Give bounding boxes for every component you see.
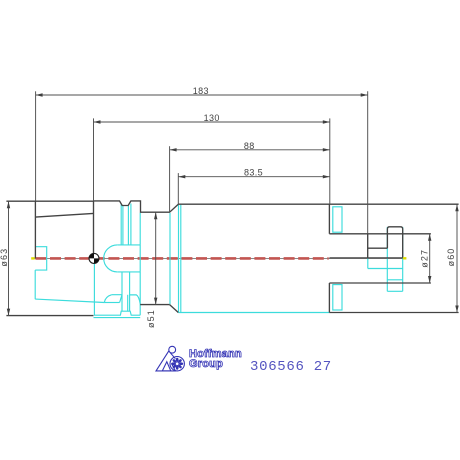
ext line 130 left / flange face bbox=[93, 118, 95, 201]
cyan hidden: capsule left cap bbox=[104, 245, 118, 272]
cyan hidden: flange face below center bbox=[93, 264, 95, 315]
logo wordmark Hoffmann bbox=[189, 350, 249, 370]
balance ball symbol bbox=[89, 253, 99, 263]
body right face lower bbox=[328, 283, 330, 313]
cyan hidden: head bottom bbox=[387, 290, 402, 292]
arrows dia51 bbox=[154, 212, 157, 219]
dim dia60 line bbox=[456, 204, 458, 312]
arrows 130 bbox=[94, 120, 101, 123]
dia60 bottom ext bbox=[329, 312, 458, 314]
body bottom-left chamfer bbox=[170, 305, 179, 313]
centerline red dashes bbox=[35, 257, 328, 260]
cyan hidden: body bottom edge bbox=[178, 312, 329, 314]
arrows 83.5 bbox=[178, 175, 185, 178]
centerline thin bbox=[32, 257, 404, 259]
ext line right 183 bbox=[367, 91, 369, 234]
logo triangle body bbox=[156, 351, 176, 371]
arrows dia60 bbox=[455, 204, 458, 211]
cyan hidden: head right vertical bbox=[402, 227, 404, 291]
cyan hidden: flange right face below center bbox=[139, 272, 141, 315]
cyan hidden: capsule top bbox=[117, 244, 140, 246]
logo head circle bbox=[169, 346, 176, 353]
flange top with V-groove bbox=[94, 201, 179, 212]
cyan hidden: left face lower bbox=[34, 270, 36, 299]
cyan hidden: wing left bottom bbox=[104, 302, 119, 304]
dim 130 line bbox=[94, 121, 330, 123]
logo inner triangle bbox=[162, 362, 171, 371]
arrows dia27 bbox=[428, 234, 431, 241]
cyan hidden: wing left top bbox=[112, 294, 122, 296]
cyan hidden: groove wall vertical 4 bbox=[130, 204, 132, 245]
shank top edge + dim ext bbox=[6, 200, 93, 202]
cyan hidden: flange face upper hidden vertical bbox=[139, 213, 141, 245]
cyan hidden: end face below center bbox=[367, 258, 369, 268]
end face at 183 bbox=[367, 234, 369, 258]
centerline yellow tick left bbox=[31, 257, 35, 259]
ext line 83.5 left bbox=[177, 173, 179, 204]
arrows 88 bbox=[170, 148, 177, 151]
logo leg to gear bbox=[170, 352, 176, 358]
cyan hidden: capsule bottom bbox=[117, 271, 140, 273]
ext line right 130/88/83.5 bbox=[329, 118, 331, 204]
part number 306566 27 bbox=[250, 359, 332, 375]
cyan hidden: body-left chamfer vertical 1 bbox=[169, 213, 171, 304]
arrows 183 bbox=[36, 93, 43, 96]
flange left face bbox=[93, 201, 95, 253]
cyan hidden: cup left wall bbox=[121, 272, 123, 311]
logo gear outer circle bbox=[170, 357, 184, 371]
shank bottom edge + dim ext bbox=[6, 315, 93, 317]
cyan hidden: head mid line bbox=[387, 279, 402, 281]
profile black bbox=[6, 201, 458, 316]
cyan hidden: groove wall vertical 3 bbox=[127, 206, 129, 245]
arrows dia63 bbox=[7, 201, 10, 208]
cyan hidden: wing right arc bbox=[130, 295, 141, 304]
dim 83.5 line bbox=[178, 176, 329, 178]
body right face upper bbox=[328, 204, 330, 234]
cyan hidden: cup inner wall bbox=[127, 295, 129, 311]
dim dia51 line bbox=[155, 212, 157, 304]
cyan hidden: cup right wall bbox=[129, 272, 131, 311]
cyan hidden: groove wall vertical 1 bbox=[120, 204, 122, 245]
cyan hidden: slot rect lower right of body bbox=[333, 285, 342, 310]
centerline yellow tick right bbox=[403, 257, 407, 259]
square head outline bbox=[387, 227, 402, 258]
logo gear petals bbox=[171, 358, 183, 370]
dia27 bottom edge + ext bbox=[329, 282, 431, 284]
dim dia27 line bbox=[429, 234, 431, 283]
cyan hidden: flange bottom edge with notch bbox=[94, 311, 140, 315]
dim dia63 line bbox=[8, 201, 10, 315]
shank taper line bbox=[35, 213, 93, 217]
step top bbox=[368, 247, 388, 249]
center edge line bbox=[329, 257, 402, 259]
dim 183 line bbox=[36, 94, 368, 96]
shank left face bbox=[34, 201, 36, 258]
cyan hidden: capsule right end bbox=[139, 245, 141, 272]
cyan hidden: wing right top bbox=[130, 294, 137, 296]
dimension texts bbox=[0, 86, 456, 328]
cyan hidden: body-left bore vertical bbox=[180, 205, 182, 312]
dim 88 line bbox=[170, 149, 330, 151]
cyan hidden: wing left arc bbox=[104, 295, 111, 303]
cyan hidden: bore step upper bbox=[35, 204, 403, 318]
ext line 88 left bbox=[169, 146, 171, 212]
dia27 top edge + ext bbox=[329, 233, 431, 235]
cyan hidden: head left vertical bbox=[386, 227, 388, 291]
cyan hidden: flange outer bottom line bbox=[94, 317, 141, 319]
cyan hidden: slot rect upper right of body bbox=[333, 207, 342, 232]
cyan hidden: body-left chamfer vertical 2 bbox=[178, 205, 180, 312]
cyan hidden: step mirror below center bbox=[368, 268, 403, 270]
arrowheads bbox=[7, 93, 459, 315]
ext line left 183 + shank face extension bbox=[35, 91, 37, 201]
neck bottom bbox=[140, 304, 169, 306]
cyan hidden: groove wall vertical 2 bbox=[122, 206, 124, 245]
body top edge + dia60 ext bbox=[178, 203, 458, 205]
cyan hidden: wing left slope bbox=[120, 295, 122, 303]
cyan hidden: inner taper slope bbox=[35, 299, 104, 302]
dimension lines bbox=[9, 91, 458, 315]
